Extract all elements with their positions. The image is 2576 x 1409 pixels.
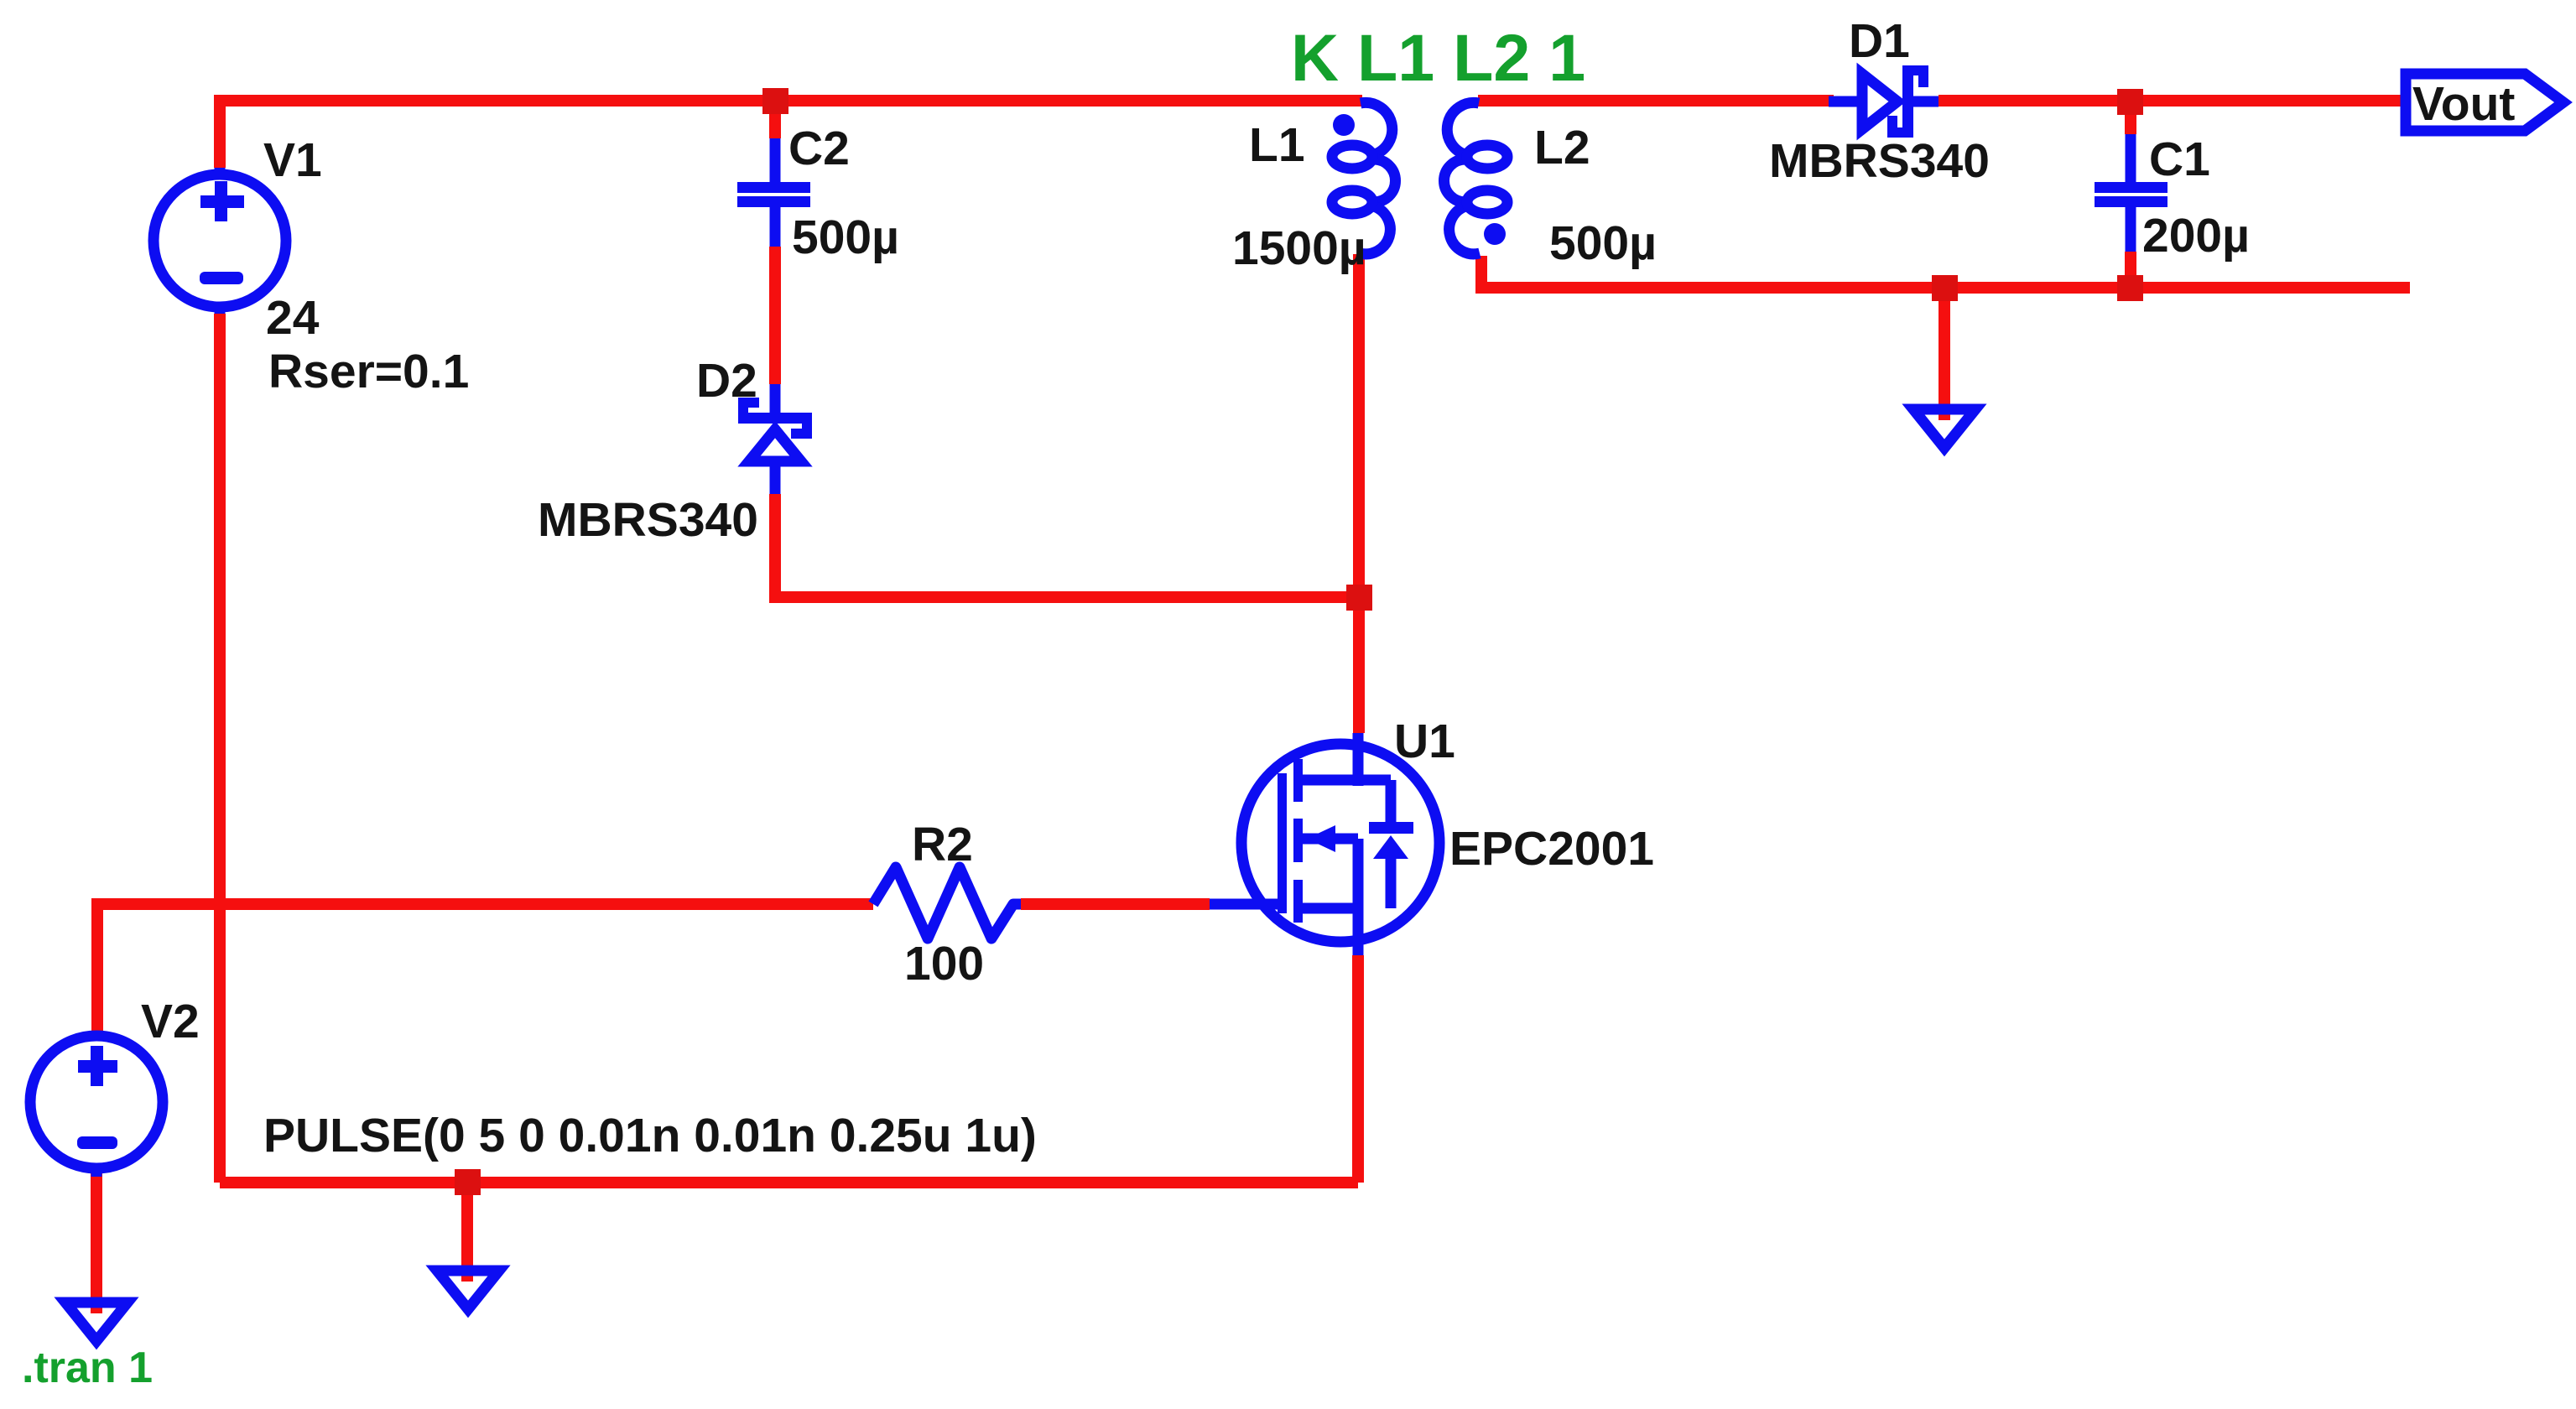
- mosfet U1 EPC2001: [1210, 733, 1439, 955]
- ground mid: [437, 1271, 499, 1309]
- wire C2 bottom to D2 top: [769, 247, 781, 384]
- wire gate rail: [97, 904, 873, 1032]
- inductor L2: [1444, 102, 1508, 253]
- svg-text:C1: C1: [2149, 133, 2210, 186]
- capacitor C1: [2095, 134, 2167, 252]
- svg-text:C2: C2: [788, 122, 850, 175]
- wire ground stub V2: [91, 1177, 102, 1313]
- svg-text:R2: R2: [912, 818, 973, 871]
- diode D2: [738, 384, 812, 494]
- svg-text:V1: V1: [263, 133, 322, 187]
- wire MOSFET source down: [1352, 955, 1364, 1183]
- wire ground stub right: [1939, 288, 1950, 420]
- svg-text:1500µ: 1500µ: [1232, 221, 1366, 275]
- svg-text:V2: V2: [141, 995, 200, 1048]
- svg-text:EPC2001: EPC2001: [1449, 822, 1654, 876]
- junction bottom rail ground: [455, 1169, 481, 1195]
- svg-text:100: 100: [904, 937, 984, 990]
- svg-text:U1: U1: [1394, 715, 1455, 768]
- wire bottom rail: [220, 1177, 1358, 1188]
- svg-text:MBRS340: MBRS340: [538, 493, 758, 547]
- wire L2 bottom corner: [1481, 256, 2410, 288]
- junction secondary ground: [1932, 275, 1958, 301]
- junction switch node: [1346, 585, 1372, 611]
- wire ground stub mid: [461, 1183, 473, 1282]
- svg-text:Vout: Vout: [2412, 77, 2515, 131]
- svg-text:.tran 1: .tran 1: [22, 1344, 153, 1392]
- diode D1: [1829, 65, 1939, 138]
- junction C1 top: [2117, 89, 2143, 115]
- junction C1 bottom: [2117, 275, 2143, 301]
- phase dot L2: [1484, 223, 1506, 245]
- wire R2 right to gate: [1021, 898, 1210, 910]
- wire V2 bottom lead: [91, 1169, 102, 1177]
- svg-text:L2: L2: [1534, 121, 1590, 174]
- wire top rail middle segment: [1478, 95, 1834, 107]
- resistor R2: [873, 867, 1021, 938]
- wire V1 lower vertical: [214, 314, 226, 1183]
- wire top rail left segment: [220, 101, 1362, 168]
- svg-text:K L1 L2 1: K L1 L2 1: [1291, 20, 1585, 95]
- inductor L1: [1332, 102, 1396, 253]
- wire top rail right segment: [1939, 95, 2404, 107]
- svg-text:500µ: 500µ: [792, 211, 899, 264]
- svg-text:D2: D2: [696, 354, 757, 408]
- voltage source V2: [30, 1032, 163, 1177]
- capacitor C2: [737, 138, 810, 247]
- ground right: [1913, 409, 1975, 448]
- wire C1 top lead red: [2125, 113, 2136, 134]
- svg-text:MBRS340: MBRS340: [1769, 134, 1990, 188]
- svg-text:PULSE(0 5 0 0.01n 0.01n 0.25u: PULSE(0 5 0 0.01n 0.01n 0.25u 1u): [263, 1109, 1037, 1162]
- svg-text:24: 24: [266, 291, 320, 345]
- junction C2 top: [762, 88, 788, 114]
- phase dot L1: [1333, 114, 1355, 136]
- ground V2: [65, 1302, 127, 1341]
- port Vout: [2406, 74, 2563, 131]
- svg-text:L1: L1: [1249, 118, 1305, 172]
- wire C2-D2 branch: [769, 113, 781, 138]
- wire C1 bottom lead red: [2125, 252, 2136, 288]
- wire D2 bottom to corner then junction: [775, 494, 1359, 597]
- svg-text:500µ: 500µ: [1549, 216, 1657, 270]
- svg-text:D1: D1: [1849, 14, 1910, 68]
- svg-text:Rser=0.1: Rser=0.1: [268, 345, 469, 398]
- svg-text:200µ: 200µ: [2142, 209, 2250, 263]
- wire switch node L1 bottom to MOSFET drain: [1353, 254, 1365, 733]
- voltage source V1: [154, 168, 286, 314]
